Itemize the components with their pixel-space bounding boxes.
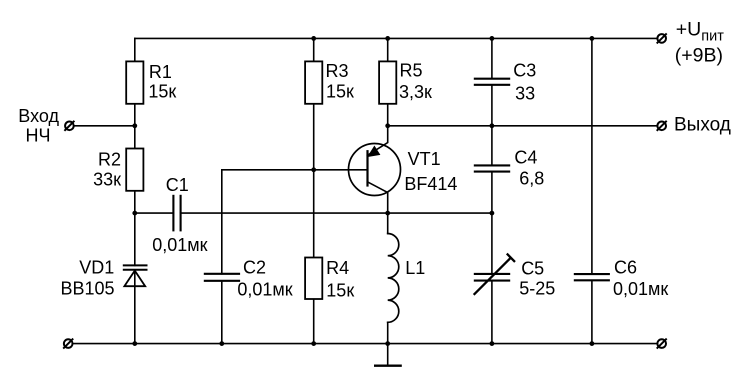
wire C3 column top — [491, 38, 493, 78]
wire C3 bottom to output rail — [491, 85, 493, 126]
wire C2 branch vertical — [221, 170, 223, 344]
node base — [311, 167, 316, 172]
svg-text:BF414: BF414 — [404, 174, 457, 194]
svg-text:VT1: VT1 — [408, 149, 441, 169]
wire mid row (C1 row) left part — [135, 212, 174, 214]
ground — [374, 344, 402, 366]
wire output rail — [388, 125, 658, 127]
wire R3 column — [313, 38, 315, 343]
inductor L1 — [388, 213, 399, 344]
wire R2 bottom to mid node — [134, 191, 136, 213]
svg-text:C5: C5 — [521, 258, 544, 278]
terminal +U — [657, 33, 667, 43]
capacitor C6 — [574, 274, 610, 280]
svg-text:Вход: Вход — [18, 106, 59, 126]
svg-text:0,01мк: 0,01мк — [237, 280, 292, 300]
svg-text:3,3к: 3,3к — [399, 82, 432, 102]
svg-text:Выход: Выход — [674, 114, 731, 135]
node top C6 — [590, 36, 595, 41]
wire C5 top — [491, 213, 493, 274]
terminal input — [64, 121, 74, 131]
resistor R3 — [305, 61, 322, 103]
capacitor C1 — [173, 195, 180, 232]
wire C4 bottom to mid node — [491, 172, 493, 214]
resistor R2 — [126, 149, 143, 191]
svg-text:C6: C6 — [614, 258, 637, 278]
wire C4 top — [491, 126, 493, 166]
node output C3C4 — [490, 123, 495, 128]
svg-text:15к: 15к — [326, 280, 354, 300]
resistor R1 — [126, 61, 143, 103]
node mid C4C5 — [490, 211, 495, 216]
wire left column top (rail corner to R1) — [134, 38, 136, 61]
transistor VT1 — [349, 126, 401, 213]
node bottom R4 — [311, 341, 316, 346]
capacitor C5 variable — [474, 254, 515, 295]
svg-text:15к: 15к — [148, 81, 176, 101]
node bottom C5 — [490, 341, 495, 346]
terminal bottom right — [657, 339, 667, 349]
node input — [132, 123, 137, 128]
svg-text:C1: C1 — [166, 175, 189, 195]
node mid left — [132, 211, 137, 216]
wire C6 column — [591, 38, 593, 343]
node R5 collector — [385, 123, 390, 128]
wire R1 bottom to input node — [134, 104, 136, 149]
svg-text:C4: C4 — [514, 148, 537, 168]
wire top supply rail — [135, 37, 658, 39]
terminals — [63, 33, 667, 348]
wire input terminal to node — [74, 125, 135, 127]
svg-text:15к: 15к — [326, 82, 354, 102]
node top R5 — [385, 36, 390, 41]
node bottom C2 — [219, 341, 224, 346]
svg-text:C2: C2 — [243, 258, 266, 278]
resistor R4 — [305, 258, 322, 300]
capacitor C3 — [474, 79, 510, 85]
svg-text:C3: C3 — [513, 61, 536, 81]
svg-text:R1: R1 — [149, 62, 172, 82]
svg-text:33: 33 — [515, 84, 535, 104]
node top R3 — [311, 36, 316, 41]
wire C5 bottom — [491, 281, 493, 344]
svg-text:5-25: 5-25 — [519, 279, 555, 299]
svg-text:R3: R3 — [326, 61, 349, 81]
node bottom L1 — [385, 341, 390, 346]
svg-text:0,01мк: 0,01мк — [152, 235, 207, 255]
node bottom VD1 — [132, 341, 137, 346]
svg-text:R4: R4 — [326, 258, 349, 278]
svg-text:BB105: BB105 — [60, 279, 114, 299]
wire R5 column — [387, 38, 389, 125]
svg-text:(+9В): (+9В) — [675, 45, 723, 67]
wire mid node to VD1 — [134, 213, 136, 265]
capacitor C2 — [204, 274, 240, 281]
wire base row from C2 corner to transistor base — [222, 169, 368, 171]
svg-text:НЧ: НЧ — [26, 126, 51, 146]
node bottom C6 — [590, 341, 595, 346]
node top C3 — [490, 36, 495, 41]
capacitor C4 — [474, 165, 510, 171]
resistor R5 — [379, 61, 396, 103]
svg-text:33к: 33к — [93, 170, 121, 190]
svg-text:R2: R2 — [98, 149, 121, 169]
svg-text:L1: L1 — [405, 258, 425, 278]
svg-text:VD1: VD1 — [79, 257, 114, 277]
wire bottom ground rail — [73, 343, 658, 345]
svg-text:R5: R5 — [400, 61, 423, 81]
svg-text:6,8: 6,8 — [519, 168, 544, 188]
wire mid row right part — [181, 212, 492, 214]
varactor VD1 — [123, 265, 148, 286]
node emitter — [385, 211, 390, 216]
svg-text:0,01мк: 0,01мк — [613, 279, 668, 299]
wire VD1 to bottom rail — [134, 271, 136, 344]
terminal output — [657, 121, 667, 131]
terminal bottom left — [63, 339, 73, 349]
